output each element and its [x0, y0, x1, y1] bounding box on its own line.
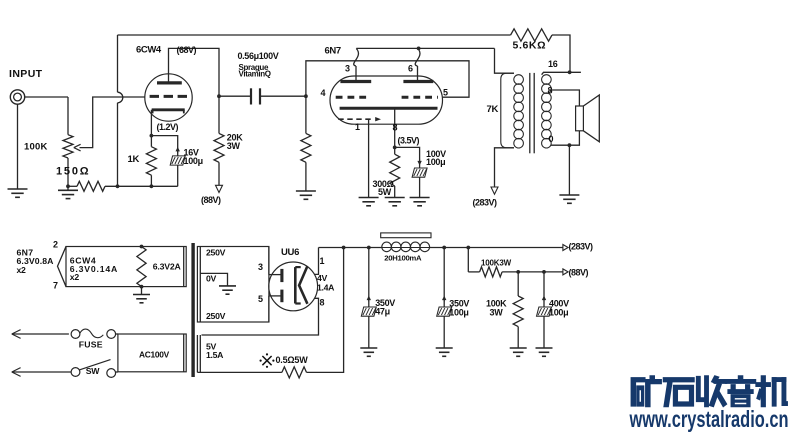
- label 0 tap: [549, 134, 554, 144]
- wire heater to ground: [368, 119, 370, 197]
- svg-text:6.3V2A: 6.3V2A: [153, 262, 182, 272]
- label pin7: [53, 281, 58, 291]
- wire wiper to grid: [80, 97, 145, 148]
- capacitor 100u100V: [412, 168, 427, 198]
- wire 16 tap: [542, 72, 581, 74]
- label 20K: [227, 133, 243, 143]
- svg-text:1K: 1K: [128, 154, 140, 165]
- UU6 cathode bracket: [295, 267, 300, 303]
- svg-text:(3.5V): (3.5V): [398, 136, 420, 146]
- svg-text:100K3W: 100K3W: [481, 258, 512, 267]
- svg-text:(68V): (68V): [177, 45, 197, 55]
- wire 0V tap: [200, 273, 227, 286]
- node 3.5V junction: [393, 146, 397, 150]
- label 8 tap: [548, 86, 553, 96]
- wire top bus: [118, 34, 511, 36]
- 6N7 grid dashes B: [402, 96, 438, 99]
- label pin8 uu6: [320, 298, 325, 308]
- label pin8: [393, 123, 398, 133]
- node B+ 100K3W junction: [466, 246, 470, 250]
- svg-text:8: 8: [393, 123, 398, 133]
- svg-text:2: 2: [53, 240, 58, 250]
- wire feedback riser: [118, 35, 123, 186]
- transformer T2 primary: [501, 73, 524, 148]
- ground below jack: [8, 189, 28, 197]
- label 100u d: [549, 308, 568, 318]
- label 3W: [227, 141, 241, 151]
- svg-text:0.5Ω5W: 0.5Ω5W: [276, 355, 309, 365]
- ground below heater: [359, 198, 379, 206]
- label 400V: [549, 299, 569, 309]
- transformer T2 core: [530, 73, 534, 153]
- svg-text:3: 3: [345, 64, 350, 74]
- label pin1 uu6: [320, 256, 325, 266]
- label 0.5ohm: [260, 353, 309, 368]
- wire jack to pot: [25, 97, 68, 135]
- label 1.4A: [317, 283, 335, 293]
- wire 6.3V ground stem: [141, 287, 143, 295]
- tube 6N7 envelope: [330, 76, 443, 124]
- svg-text:0.56μ100V: 0.56μ100V: [238, 51, 279, 61]
- label 300ohm: [373, 179, 394, 189]
- capacitor 100u350V polarity: [442, 248, 446, 308]
- capacitor 100u16V: [170, 156, 185, 186]
- wire 6CW4 plate lead: [169, 48, 220, 96]
- label 5W: [378, 187, 392, 197]
- resistor 150ohm: [77, 181, 105, 191]
- label 100K3W: [481, 258, 512, 267]
- UU6 plate A: [280, 269, 283, 282]
- label (1.2V): [157, 122, 179, 132]
- svg-text:100μ: 100μ: [184, 156, 203, 166]
- label (88V) top: [201, 195, 221, 205]
- svg-text:INPUT: INPUT: [9, 68, 43, 80]
- 6CW4 grid dashes: [150, 95, 187, 98]
- wire 5.6K to 16tap: [552, 35, 570, 73]
- wire primary bottom: [495, 148, 515, 187]
- wire to 100u cap: [395, 147, 420, 168]
- wire 6N7 plate bus: [356, 47, 494, 49]
- capacitor 47u350V: [361, 307, 376, 348]
- label pin6: [408, 64, 413, 74]
- label 1.5A: [206, 350, 224, 360]
- resistor grid leak: [301, 96, 311, 191]
- transformer T2 secondary: [542, 75, 552, 148]
- wire HT top to plate: [269, 247, 281, 275]
- wire 0.5ohm riser: [307, 248, 344, 373]
- plug arrow lower: [12, 368, 71, 377]
- svg-text:1.4A: 1.4A: [317, 283, 335, 293]
- label 16: [548, 59, 558, 69]
- label 100u b: [426, 157, 445, 167]
- wire jack ground stem: [17, 104, 19, 189]
- ground below pot: [58, 186, 78, 198]
- label 1K: [128, 154, 140, 165]
- ground below 300ohm: [385, 198, 405, 206]
- svg-text:8: 8: [320, 298, 325, 308]
- label (283V) bottom: [569, 241, 594, 251]
- logo url www.crystalradio.cn: [629, 406, 789, 432]
- svg-text:5: 5: [258, 294, 263, 304]
- label pin1: [355, 122, 360, 132]
- node 6.3V top: [140, 245, 144, 249]
- svg-text:www.crystalradio.cn: www.crystalradio.cn: [629, 406, 789, 432]
- resistor 100K bleeder: [513, 272, 523, 348]
- terminal (283V): [563, 245, 568, 251]
- label 47u: [375, 307, 390, 317]
- node B+ 47u junction: [367, 246, 371, 250]
- ground 100K bleeder: [510, 348, 527, 356]
- wire 6N7 plateA lead hop: [354, 48, 359, 81]
- wire pot bottom: [67, 158, 69, 186]
- label 20H100mA: [384, 254, 422, 263]
- label pin5 uu6: [258, 294, 263, 304]
- label VitaminQ: [239, 70, 271, 79]
- label 150ohm: [56, 166, 90, 178]
- 6CW4 plate: [157, 81, 182, 84]
- svg-text:(1.2V): (1.2V): [157, 122, 179, 132]
- svg-text:7K: 7K: [487, 104, 499, 115]
- svg-text:6N7: 6N7: [325, 46, 341, 57]
- node plate bus junction: [417, 47, 421, 51]
- ground below 100u: [410, 198, 430, 206]
- capacitor 47u350V polarity: [367, 248, 371, 308]
- label 6CW4 fil: [70, 256, 97, 266]
- node plate-coupling junction: [217, 94, 221, 98]
- svg-text:3W: 3W: [490, 308, 504, 318]
- svg-text:1: 1: [355, 122, 360, 132]
- label 250V bot: [206, 311, 226, 321]
- label 100V: [426, 149, 446, 159]
- resistor 100K3W: [468, 248, 563, 277]
- 6N7 cathode bar: [340, 107, 438, 110]
- label pin4: [321, 88, 326, 98]
- wire 0 tap: [551, 131, 579, 145]
- label 6.3V0.14A: [70, 264, 118, 274]
- fuse F1: [71, 329, 116, 338]
- node 88V bleeder junction: [516, 270, 520, 274]
- label UU6: [281, 247, 299, 258]
- svg-text:250V: 250V: [206, 248, 226, 258]
- 6CW4 cathode: [152, 110, 185, 114]
- label 6N7 fil: [17, 248, 34, 258]
- svg-text:16: 16: [548, 59, 558, 69]
- svg-text:6CW4: 6CW4: [136, 45, 162, 56]
- label INPUT: [9, 68, 43, 80]
- svg-text:100μ: 100μ: [449, 308, 468, 318]
- ground 100u350V: [436, 348, 453, 356]
- wire plate bus to primary: [495, 48, 515, 73]
- capacitor 100u16V polarity arrow: [176, 147, 180, 153]
- wire 8 tap: [551, 90, 579, 106]
- wire cathode to cap: [151, 136, 177, 156]
- label 100u c: [449, 308, 468, 318]
- svg-text:7: 7: [53, 281, 58, 291]
- capacitor 100u350V: [437, 307, 452, 348]
- label AC100V: [139, 350, 170, 360]
- ground below 0 tap: [559, 195, 579, 203]
- svg-text:20H100mA: 20H100mA: [384, 254, 422, 263]
- svg-text:47μ: 47μ: [375, 307, 390, 317]
- capacitor 100u400V: [537, 307, 552, 348]
- capacitor 100u400V polarity: [542, 272, 546, 307]
- label (3.5V): [398, 136, 420, 146]
- potentiometer 100K: [63, 135, 73, 158]
- ground 100u400V: [536, 348, 553, 356]
- label 350V a: [375, 298, 395, 308]
- label SW: [86, 366, 100, 376]
- svg-text:5: 5: [443, 88, 448, 98]
- svg-text:FUSE: FUSE: [79, 339, 103, 349]
- node 0 tap junction: [568, 143, 572, 147]
- ground below grid leak: [296, 191, 316, 199]
- T1 filament chevron: [58, 247, 67, 287]
- node 6N7 grid junction: [304, 94, 308, 98]
- svg-text:3: 3: [258, 262, 263, 272]
- node B+ 0.5ohm junction: [342, 246, 346, 250]
- svg-text:5W: 5W: [378, 187, 392, 197]
- svg-text:(283V): (283V): [473, 198, 498, 208]
- UU6 filament: [299, 266, 307, 304]
- node 1K-rail junction: [150, 184, 154, 188]
- label 0.56u100V: [238, 51, 279, 61]
- svg-text:100μ: 100μ: [549, 308, 568, 318]
- capacitor 0.56u coupling: [219, 88, 306, 104]
- label 250V top: [206, 248, 226, 258]
- svg-text:x2: x2: [17, 265, 27, 275]
- tube UU6 envelope: [269, 262, 318, 311]
- label 16V: [184, 148, 199, 158]
- label 3W b: [490, 308, 504, 318]
- label pin3 uu6: [258, 262, 263, 272]
- wire cathode pin8: [394, 108, 396, 147]
- wire grid bus: [306, 61, 469, 97]
- svg-text:0: 0: [549, 134, 554, 144]
- wire rail segments: [68, 185, 178, 187]
- node 88V cap junction: [542, 270, 546, 274]
- svg-text:5.6KΩ: 5.6KΩ: [513, 39, 547, 51]
- label 6N7 top: [325, 46, 341, 57]
- arrow to 283V top: [491, 187, 498, 194]
- T1 filament winding box: [66, 247, 186, 287]
- node 6.3V bottom: [140, 285, 144, 289]
- svg-text:AC100V: AC100V: [139, 350, 170, 360]
- label 6.3V2A: [153, 262, 182, 272]
- ground 0V tap: [219, 286, 236, 294]
- label 4V: [317, 273, 328, 283]
- 6N7 plate A: [340, 80, 371, 83]
- svg-text:3W: 3W: [227, 141, 241, 151]
- wire switch to box: [116, 371, 118, 373]
- 6N7 plate B: [403, 80, 433, 83]
- node feedback-rail junction: [116, 184, 120, 188]
- node cathode junction: [150, 134, 154, 138]
- logo 矿石收音机 (crystalradio): [631, 376, 787, 407]
- label 6CW4: [136, 45, 162, 56]
- label (283V) top: [473, 198, 498, 208]
- label 5.6Kohm: [513, 39, 547, 51]
- wire 0 tap ground stem: [568, 145, 570, 195]
- wire choke to 283V: [429, 247, 563, 249]
- winding 6.3V2A: [137, 247, 146, 287]
- svg-text:SW: SW: [86, 366, 100, 376]
- label pin3: [345, 64, 350, 74]
- label pin2: [53, 240, 58, 250]
- svg-text:(88V): (88V): [569, 267, 589, 277]
- label 6.3V0.8A: [17, 256, 55, 266]
- transformer T1 core: [191, 243, 194, 377]
- svg-text:(88V): (88V): [201, 195, 221, 205]
- resistor 20K3W: [214, 96, 224, 185]
- label 350V b: [449, 299, 469, 309]
- T1 5V winding box: [197, 335, 282, 372]
- wire 6CW4 cathode lead: [150, 110, 152, 136]
- label Sprague: [239, 63, 269, 72]
- 6N7 heater dashes: [338, 117, 381, 121]
- svg-text:100K: 100K: [24, 142, 48, 153]
- wire 6N7 plateB lead hop: [415, 48, 420, 81]
- svg-text:100μ: 100μ: [426, 157, 445, 167]
- label x2 b: [70, 272, 80, 282]
- label 7K: [487, 104, 499, 115]
- node pot-ground junction: [66, 184, 70, 188]
- svg-text:1: 1: [320, 256, 325, 266]
- tube 6CW4 envelope: [145, 74, 192, 121]
- label x2 a: [17, 265, 27, 275]
- pot wiper arrow: [74, 144, 81, 151]
- node choke-cap junction: [442, 246, 446, 250]
- UU6 plate B: [280, 290, 283, 303]
- terminal (88V): [563, 269, 568, 275]
- label 100K b: [486, 299, 507, 309]
- svg-text:4: 4: [321, 88, 326, 98]
- capacitor 100u100V polarity arrow: [417, 160, 421, 166]
- ground 47u: [360, 348, 377, 356]
- label (88V) bottom: [569, 267, 589, 277]
- svg-text:(283V): (283V): [569, 241, 594, 251]
- label FUSE: [79, 339, 103, 349]
- input jack J1: [10, 90, 24, 104]
- svg-text:x2: x2: [70, 272, 80, 282]
- resistor 300ohm: [390, 147, 400, 197]
- label 5V: [206, 342, 217, 352]
- T1 HT winding box: [197, 247, 269, 323]
- wire pin8 return: [202, 298, 319, 335]
- wire HT bot to plate: [269, 296, 281, 322]
- node 16 tap junction: [568, 70, 572, 74]
- wire pin1 riser: [314, 248, 318, 275]
- resistor 1K: [146, 136, 156, 187]
- resistor 0.5ohm: [282, 367, 307, 378]
- label 0V: [206, 274, 217, 284]
- wire B+ rail: [319, 247, 383, 249]
- speaker: [576, 95, 600, 142]
- label 100u: [184, 156, 203, 166]
- svg-text:6: 6: [408, 64, 413, 74]
- svg-text:UU6: UU6: [281, 247, 299, 258]
- arrow to 88V: [216, 185, 223, 192]
- wire fuse to box: [116, 333, 118, 335]
- svg-text:250V: 250V: [206, 311, 226, 321]
- switch SW: [71, 360, 116, 378]
- choke 20H100mA: [381, 233, 431, 252]
- label 100K: [24, 142, 48, 153]
- svg-text:1.5A: 1.5A: [206, 350, 224, 360]
- svg-text:VitaminQ: VitaminQ: [239, 70, 271, 79]
- svg-text:150Ω: 150Ω: [56, 166, 90, 178]
- resistor 5.6K: [511, 29, 552, 41]
- label pin5: [443, 88, 448, 98]
- svg-text:0V: 0V: [206, 274, 217, 284]
- label (68V): [177, 45, 197, 55]
- T1 AC primary box: [118, 334, 186, 372]
- plug arrow upper: [12, 330, 69, 339]
- 6N7 grid dashes A: [336, 96, 369, 99]
- ground 6.3V winding: [133, 295, 150, 303]
